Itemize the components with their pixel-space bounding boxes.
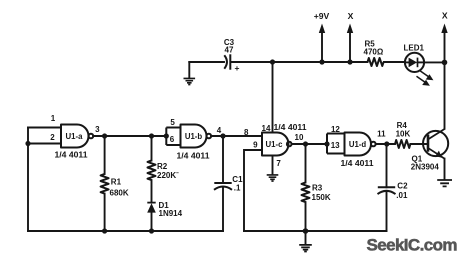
- resistor R5 470ohm: [364, 40, 384, 67]
- svg-text:1/4 4011: 1/4 4011: [55, 150, 88, 160]
- node lower rail / R3 / ground junction: [303, 228, 309, 234]
- X output arrow (right): [441, 11, 448, 63]
- node 4 junction (C1 tap): [220, 133, 225, 138]
- svg-text:1/4 4011: 1/4 4011: [177, 150, 210, 160]
- resistor R4 10K: [395, 121, 427, 148]
- svg-text:SeekIC.com: SeekIC.com: [367, 236, 458, 255]
- node 11 junction (C2 tap): [384, 141, 389, 146]
- node +9V junction: [319, 59, 324, 64]
- svg-text:R3: R3: [312, 184, 323, 193]
- wire U1-a input pin 1: [28, 127, 61, 129]
- svg-text:12: 12: [331, 125, 340, 134]
- node R1 bottom junction: [102, 228, 107, 233]
- node D1 bottom junction: [149, 228, 154, 233]
- wire left vertical (inputs 1,2 down to lower rail): [27, 128, 29, 232]
- svg-text:10K: 10K: [396, 130, 411, 139]
- wire U1-a input pin 2: [28, 143, 61, 145]
- wire Q1 emitter to ground: [444, 159, 446, 180]
- wire bottom rail (right piece): [244, 230, 387, 232]
- svg-text:R1: R1: [111, 178, 122, 187]
- node R2 tap junction: [149, 133, 154, 138]
- capacitor C3 47: [224, 38, 240, 73]
- svg-text:5: 5: [170, 118, 175, 127]
- node LED/collector/X junction: [442, 60, 448, 66]
- wire U1-c pin 7 to ground: [272, 156, 274, 175]
- wire top rail middle segment: [232, 61, 368, 63]
- node U1-a inputs junction: [25, 141, 30, 146]
- nand gate U1-d: [331, 125, 386, 168]
- node pin14 junction: [270, 59, 275, 64]
- svg-text:10: 10: [295, 133, 304, 142]
- ground (lower rail): [299, 231, 312, 252]
- nand gate U1-b: [170, 118, 222, 160]
- svg-text:7: 7: [276, 159, 281, 168]
- svg-text:1: 1: [51, 114, 56, 123]
- X output arrow (left): [347, 11, 354, 62]
- svg-text:14: 14: [262, 124, 271, 133]
- wire U1-d input tie loop: [327, 134, 345, 154]
- wire top rail left segment: [189, 61, 224, 63]
- node U1-b input junction: [164, 133, 169, 138]
- svg-text:U1-b: U1-b: [185, 132, 203, 141]
- wire U1-b output to U1-c pin 8: [211, 135, 262, 137]
- svg-text:13: 13: [331, 141, 340, 150]
- svg-text:220Kˉ: 220Kˉ: [157, 171, 179, 180]
- svg-text:2: 2: [50, 133, 55, 142]
- wire rail LED to X node: [424, 61, 444, 63]
- wire U1-c output to U1-d input: [292, 143, 328, 145]
- svg-text:9: 9: [253, 141, 258, 150]
- wire rail R5 to LED: [384, 61, 405, 63]
- svg-text:6: 6: [170, 135, 175, 144]
- svg-text:8: 8: [244, 128, 249, 137]
- svg-text:680K: 680K: [110, 188, 129, 197]
- svg-text:+9V: +9V: [314, 11, 330, 21]
- wire X node down to Q1 collector: [444, 62, 446, 128]
- svg-text:X: X: [348, 11, 354, 21]
- svg-text:U1-a: U1-a: [66, 132, 84, 141]
- node X junction: [347, 59, 352, 64]
- svg-text:U1-d: U1-d: [349, 140, 367, 149]
- resistor R2 220K: [148, 136, 180, 202]
- svg-text:C2: C2: [397, 181, 408, 190]
- svg-text:4: 4: [217, 126, 222, 135]
- svg-text:R2: R2: [157, 162, 168, 171]
- node 10 junction (R3 tap): [303, 141, 308, 146]
- nand gate U1-c: [244, 122, 307, 168]
- svg-text:11: 11: [377, 130, 386, 139]
- svg-text:LED1: LED1: [404, 43, 425, 52]
- resistor R3 150K: [302, 144, 331, 231]
- svg-text:.01: .01: [396, 191, 408, 200]
- node U1-d input junction: [324, 141, 329, 146]
- nand gate U1-a: [50, 114, 100, 160]
- svg-text:470Ω: 470Ω: [364, 48, 384, 57]
- wire U1-d output to R4: [376, 143, 395, 145]
- LED emission arrows: [420, 71, 430, 78]
- diode D1 1N914: [147, 201, 182, 231]
- node 3 junction (R1 tap): [102, 133, 107, 138]
- capacitor C2 .01: [378, 144, 409, 231]
- +9V supply arrow: [314, 11, 330, 62]
- svg-text:X: X: [442, 11, 448, 21]
- svg-text:2N3904: 2N3904: [411, 163, 440, 172]
- svg-text:150K: 150K: [312, 193, 331, 202]
- LED1: [404, 43, 434, 85]
- svg-text:3: 3: [95, 125, 100, 134]
- svg-text:1N914: 1N914: [159, 209, 183, 218]
- capacitor C1 .1: [214, 136, 243, 231]
- transistor Q1 2N3904: [411, 129, 448, 172]
- svg-text:1/4 4011: 1/4 4011: [341, 158, 374, 168]
- wire U1-b input tie loop: [166, 128, 180, 146]
- svg-text:.1: .1: [234, 184, 241, 193]
- wire pin 14 of U1-c up to +9V rail: [272, 62, 274, 132]
- wire bottom rail (left piece): [28, 230, 223, 232]
- ground (top left, C3 negative return): [184, 62, 196, 85]
- wire U1-a output to U1-b input: [93, 135, 166, 137]
- resistor R1 680K: [101, 136, 129, 231]
- svg-text:1/4 4011: 1/4 4011: [274, 122, 307, 132]
- svg-text:+: +: [235, 63, 240, 73]
- wire U1-c pin 9 from lower rail: [244, 150, 262, 231]
- svg-text:47: 47: [225, 46, 234, 55]
- ground (U1-c pin 7): [267, 175, 279, 181]
- svg-text:R4: R4: [397, 121, 408, 130]
- svg-text:U1-c: U1-c: [266, 140, 284, 149]
- ground (Q1 emitter): [437, 180, 452, 186]
